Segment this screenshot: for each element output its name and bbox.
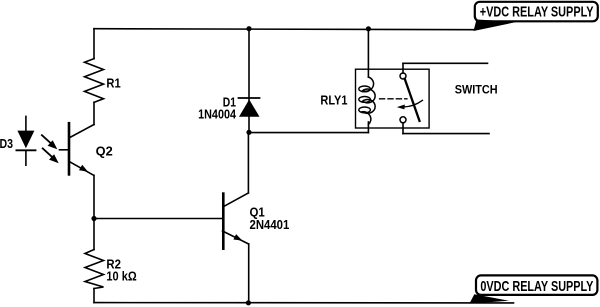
resistor R1 <box>85 59 104 103</box>
relay switch blade <box>405 79 420 121</box>
flag +VDC wedge <box>474 20 518 32</box>
wire junction to Q1 base <box>94 218 223 220</box>
wire top rail <box>94 29 474 30</box>
transistor Q2 emitter arrow <box>79 165 88 172</box>
relay switch top contact <box>400 73 406 79</box>
relay RLY1 box <box>356 69 430 128</box>
node junction at Q2 emitter / R2 / Q1 base <box>91 216 96 221</box>
svg-text:+VDC RELAY SUPPLY: +VDC RELAY SUPPLY <box>480 3 594 20</box>
wire R1 bottom to Q2 collector <box>93 102 95 124</box>
diode D1 cathode bar <box>239 97 260 99</box>
svg-text:SWITCH: SWITCH <box>455 85 498 97</box>
transistor Q2 collector lead <box>70 125 94 138</box>
flag 0VDC RELAY SUPPLY box <box>476 275 597 295</box>
relay coil loops <box>363 77 376 125</box>
svg-text:Q2: Q2 <box>96 144 113 158</box>
svg-text:R1: R1 <box>106 76 120 90</box>
wire switch top terminal <box>403 62 488 64</box>
relay actuation arrow head <box>397 105 405 110</box>
transistor Q1 collector lead <box>224 193 249 207</box>
wire Q1 collector up to D1 node <box>247 132 249 193</box>
opto light arrow 2 shaft <box>43 148 54 158</box>
wire R2 bottom to rail <box>93 289 95 303</box>
flag 0VDC wedge <box>469 294 509 303</box>
svg-text:1N4004: 1N4004 <box>198 107 236 121</box>
wire relay coil bottom down <box>367 122 369 133</box>
node junction relay coil top on rail <box>366 26 371 31</box>
node junction D1 top on rail <box>246 26 251 31</box>
LED D3 top lead <box>25 116 27 130</box>
transistor Q1 base bar <box>222 194 225 249</box>
wire D1 node to relay coil <box>249 132 368 134</box>
svg-text:10 kΩ: 10 kΩ <box>106 269 136 283</box>
relay actuation curved arrow <box>402 100 423 107</box>
transistor Q2 emitter lead <box>70 162 94 176</box>
wire switch top stub <box>402 63 404 73</box>
node junction Q1 emitter on bottom rail <box>246 300 251 305</box>
transistor Q2 base stub <box>60 149 68 151</box>
svg-text:0VDC RELAY SUPPLY: 0VDC RELAY SUPPLY <box>480 278 593 295</box>
svg-text:RLY1: RLY1 <box>320 92 347 107</box>
wire junction down to R2 <box>93 219 95 250</box>
resistor R2 <box>85 250 104 289</box>
wire D1 column (top rail to lower node) <box>248 29 250 133</box>
relay switch bottom contact <box>400 117 406 123</box>
wire bottom rail <box>94 302 514 304</box>
relay actuation dashed link <box>380 98 407 100</box>
wire rail down to relay coil <box>367 29 369 77</box>
wire switch bottom stub <box>402 123 404 134</box>
wire Q1 emitter down to rail <box>248 244 250 303</box>
opto light arrow 1 head <box>48 140 58 149</box>
LED D3 cathode bar <box>16 149 35 151</box>
svg-text:2N4401: 2N4401 <box>250 218 290 232</box>
wire switch bottom terminal <box>403 133 489 135</box>
node junction below D1 <box>246 130 251 135</box>
wire Q2 emitter down <box>93 175 95 218</box>
svg-text:D3: D3 <box>0 137 13 151</box>
diode D1 triangle <box>239 100 260 117</box>
transistor Q2 base bar <box>68 123 71 174</box>
transistor Q1 emitter arrow <box>233 234 242 241</box>
LED D3 triangle <box>17 131 34 149</box>
wire left column top (rail to R1) <box>93 29 95 59</box>
opto light arrow 2 head <box>49 154 59 163</box>
transistor Q1 emitter lead <box>223 231 249 244</box>
flag +VDC RELAY SUPPLY box <box>475 2 598 22</box>
LED D3 bottom lead <box>25 151 27 165</box>
opto light arrow 1 shaft <box>42 135 52 144</box>
